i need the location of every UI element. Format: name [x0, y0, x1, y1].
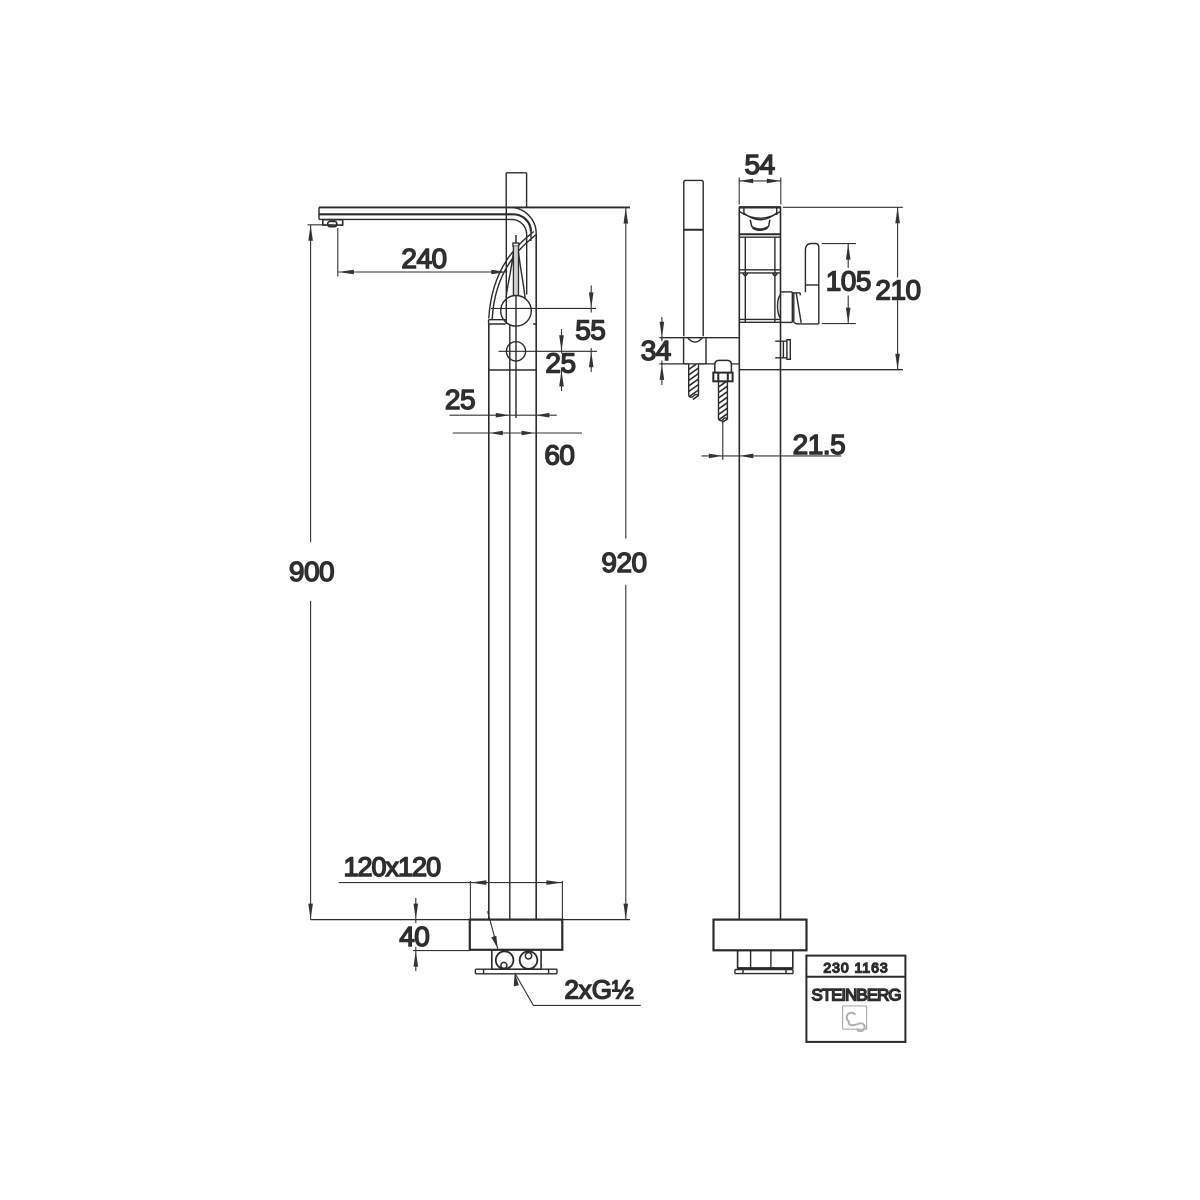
svg-text:920: 920	[601, 547, 646, 578]
svg-text:105: 105	[826, 266, 871, 297]
svg-text:230 1163: 230 1163	[823, 959, 888, 975]
svg-text:60: 60	[544, 440, 574, 471]
svg-text:900: 900	[289, 556, 334, 587]
svg-text:55: 55	[575, 315, 605, 346]
svg-text:210: 210	[875, 275, 920, 306]
svg-text:25: 25	[545, 348, 575, 379]
svg-text:2xG½: 2xG½	[564, 975, 633, 1005]
svg-text:40: 40	[399, 921, 429, 952]
svg-text:120x120: 120x120	[343, 852, 440, 882]
svg-text:240: 240	[401, 243, 446, 274]
svg-text:34: 34	[641, 335, 671, 366]
svg-text:21.5: 21.5	[793, 429, 846, 460]
svg-text:54: 54	[745, 149, 775, 180]
svg-text:25: 25	[445, 384, 475, 415]
svg-text:STEINBERG: STEINBERG	[811, 985, 900, 1004]
